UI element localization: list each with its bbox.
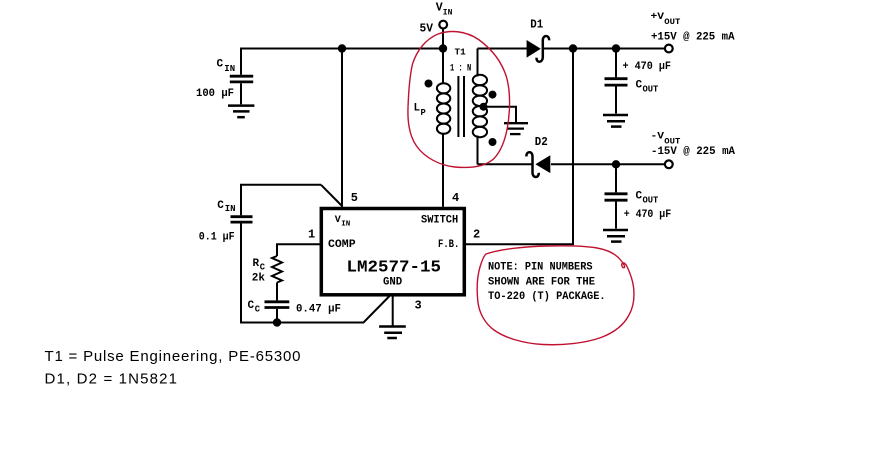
wire rail after D1 bbox=[543, 48, 665, 50]
svg-text:+15V @ 225 mA: +15V @ 225 mA bbox=[651, 32, 735, 44]
svg-text:C: C bbox=[248, 300, 255, 312]
capacitor C_IN 0.1uF branch bbox=[231, 185, 343, 323]
svg-text:5V: 5V bbox=[420, 23, 434, 36]
ground (center tap) bbox=[504, 123, 528, 134]
primary winding Lp bbox=[437, 83, 450, 134]
ground (C_OUT top) bbox=[603, 115, 628, 127]
svg-text:SHOWN ARE FOR THE: SHOWN ARE FOR THE bbox=[488, 276, 595, 288]
wire top rail left bbox=[240, 48, 443, 50]
svg-text:0.1 µF: 0.1 µF bbox=[199, 232, 235, 244]
svg-text:OUT: OUT bbox=[664, 17, 680, 27]
svg-text:-V: -V bbox=[651, 131, 665, 143]
label T1 / 1:N / Lp bbox=[414, 47, 472, 118]
svg-text:T1: T1 bbox=[455, 47, 466, 58]
red annotation circle around transformer bbox=[408, 32, 510, 168]
svg-text:OUT: OUT bbox=[643, 84, 660, 94]
phasing dot secondary top bbox=[489, 91, 497, 99]
label V_IN 5V bbox=[420, 2, 453, 36]
svg-text:C: C bbox=[255, 304, 261, 314]
wire center tap bbox=[484, 107, 517, 123]
wire pin 5 vertical bbox=[341, 49, 343, 207]
svg-text:SWITCH: SWITCH bbox=[421, 214, 458, 226]
diode D2 bbox=[526, 152, 550, 177]
svg-text:GND: GND bbox=[383, 277, 403, 289]
wire primary bottom stem / pin 4 bbox=[442, 133, 444, 206]
node rail/pin5 junction bbox=[338, 44, 346, 52]
wire R_C to C_C bbox=[276, 283, 278, 301]
svg-text:TO-220 (T) PACKAGE.: TO-220 (T) PACKAGE. bbox=[488, 291, 606, 303]
note text TO-220 bbox=[488, 262, 606, 303]
svg-text:-15V @ 225 mA: -15V @ 225 mA bbox=[651, 146, 735, 158]
svg-text:2k: 2k bbox=[252, 273, 266, 285]
svg-text:D1, D2 = 1N5821: D1, D2 = 1N5821 bbox=[45, 371, 178, 388]
svg-text:3: 3 bbox=[415, 299, 422, 313]
wire feedback bbox=[466, 49, 574, 245]
svg-text:P: P bbox=[421, 108, 426, 118]
secondary winding bbox=[473, 75, 487, 137]
red annotation circle around note bbox=[477, 246, 634, 345]
svg-text:COMP: COMP bbox=[328, 239, 356, 251]
svg-text:+ 470 µF: + 470 µF bbox=[624, 209, 672, 221]
svg-text:OUT: OUT bbox=[664, 136, 680, 146]
svg-text:L: L bbox=[414, 103, 421, 115]
label C_C 0.47uF bbox=[248, 300, 342, 316]
capacitor C_IN 100uF bbox=[230, 49, 253, 105]
wire D2 to terminal bbox=[551, 163, 665, 165]
label D1 bbox=[530, 17, 543, 31]
svg-text:+V: +V bbox=[651, 11, 665, 23]
label R_C 2k bbox=[252, 258, 266, 285]
capacitor C_C bbox=[265, 302, 290, 308]
svg-text:2: 2 bbox=[473, 227, 480, 241]
label C_OUT top bbox=[623, 61, 672, 94]
node C_C junction bbox=[273, 318, 281, 326]
svg-text:T1 = Pulse Engineering, PE-653: T1 = Pulse Engineering, PE-65300 bbox=[45, 348, 301, 365]
transformer T1 bbox=[425, 49, 529, 207]
pin number labels bbox=[308, 191, 480, 313]
svg-text:F.B.: F.B. bbox=[438, 239, 459, 251]
svg-text:V: V bbox=[436, 2, 443, 15]
ground (C_OUT bottom) bbox=[603, 230, 628, 242]
wire bottom run to GND pin bbox=[240, 296, 390, 323]
svg-text:NOTE: PIN NUMBERS: NOTE: PIN NUMBERS bbox=[488, 262, 593, 274]
svg-text:LM2577-15: LM2577-15 bbox=[347, 259, 442, 278]
svg-text:C: C bbox=[217, 59, 224, 71]
wire secondary bottom stem bbox=[477, 136, 479, 165]
svg-text:D2: D2 bbox=[535, 135, 548, 149]
text component list bbox=[45, 348, 301, 388]
node center tap bbox=[480, 103, 488, 111]
wire secondary to D2 bbox=[478, 163, 533, 165]
resistor R_C bbox=[272, 256, 282, 283]
IC U1 LM2577-15 box bbox=[321, 209, 464, 295]
svg-text:100 µF: 100 µF bbox=[196, 88, 234, 100]
svg-text:1: 1 bbox=[308, 227, 315, 241]
svg-text:1 : N: 1 : N bbox=[450, 64, 471, 75]
svg-text:D1: D1 bbox=[530, 17, 543, 31]
node C_OUT top junction bbox=[612, 44, 620, 52]
svg-text:4: 4 bbox=[452, 191, 459, 205]
svg-text:C: C bbox=[636, 80, 643, 92]
svg-text:IN: IN bbox=[341, 220, 350, 228]
wire COMP pin 1 bbox=[277, 244, 321, 256]
svg-text:IN: IN bbox=[443, 8, 453, 17]
svg-text:V: V bbox=[335, 215, 341, 226]
svg-text:R: R bbox=[253, 258, 260, 270]
svg-text:0.47 µF: 0.47 µF bbox=[296, 304, 341, 316]
label pins inside box bbox=[328, 214, 459, 288]
phasing dot primary bbox=[425, 80, 433, 88]
diode D1 bbox=[527, 36, 550, 62]
label C_IN (0.1uF) bbox=[199, 200, 236, 244]
node V_IN junction bbox=[439, 44, 447, 52]
svg-text:+ 470 µF: + 470 µF bbox=[623, 61, 672, 73]
terminal V_IN bbox=[439, 21, 447, 49]
wire C_C down bbox=[276, 309, 278, 323]
phasing dot secondary bottom bbox=[489, 138, 497, 146]
wire rail to D1 bbox=[478, 48, 528, 50]
capacitor C_OUT top bbox=[605, 49, 628, 114]
ground (under C_IN 100uF) bbox=[228, 106, 254, 118]
label C_OUT bottom bbox=[624, 191, 672, 222]
svg-text:OUT: OUT bbox=[643, 195, 660, 205]
svg-text:IN: IN bbox=[224, 64, 235, 74]
ground pin 3 bbox=[379, 296, 406, 338]
svg-text:5: 5 bbox=[351, 191, 358, 205]
label +V_OUT bbox=[651, 11, 735, 44]
node C_OUT bottom junction bbox=[612, 160, 620, 168]
terminal -V_OUT bbox=[665, 160, 673, 168]
wire primary top stem bbox=[442, 49, 444, 85]
svg-text:C: C bbox=[636, 191, 643, 203]
label C_IN (100uF) bbox=[196, 59, 235, 101]
core lines bbox=[457, 76, 459, 137]
node feedback junction bbox=[569, 44, 577, 52]
wire secondary top stem bbox=[477, 49, 479, 77]
svg-text:IN: IN bbox=[225, 204, 236, 214]
capacitor C_OUT bottom bbox=[605, 164, 628, 228]
terminal +V_OUT bbox=[665, 45, 673, 53]
svg-text:C: C bbox=[260, 262, 266, 272]
svg-text:C: C bbox=[217, 200, 224, 212]
label -V_OUT bbox=[651, 131, 736, 159]
label D2 bbox=[535, 135, 548, 149]
